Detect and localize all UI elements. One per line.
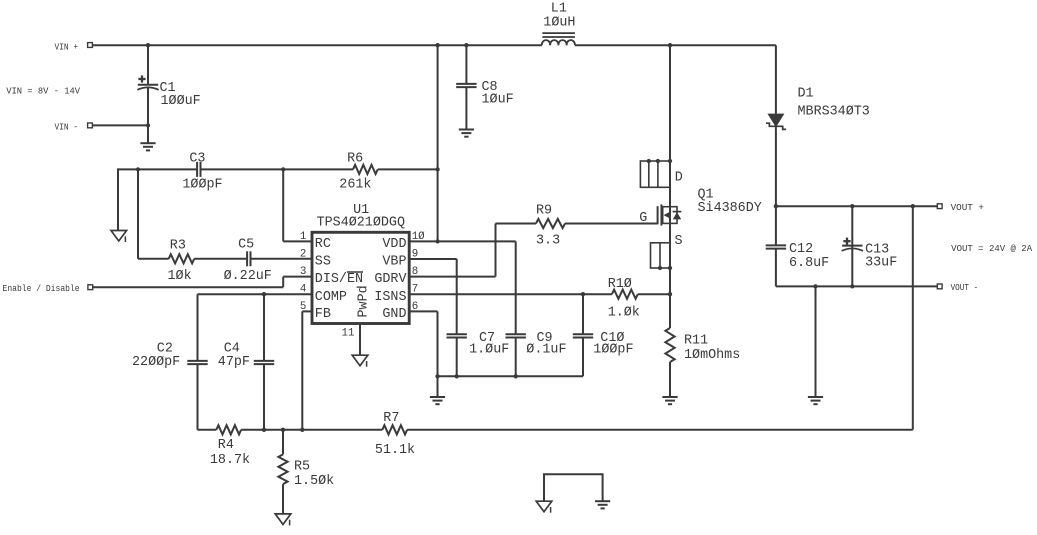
wire R9 riser: [495, 224, 497, 277]
label R9 ref: [536, 204, 552, 219]
junction Q1 drain top: [668, 43, 672, 47]
label C5 value: [224, 269, 272, 284]
ground below pin6: [430, 397, 445, 404]
wire FB drop: [301, 311, 303, 429]
wire C1 bottom lead: [147, 88, 149, 144]
resistor R7: [382, 425, 407, 434]
label U1 ref: [353, 203, 369, 218]
junction C4 bottom: [262, 428, 266, 432]
capacitor C4: [254, 361, 274, 364]
label Q1 G: [639, 211, 647, 226]
svg-text:VOUT +: VOUT +: [951, 203, 984, 213]
ground below R11: [662, 397, 677, 404]
wire C1 top lead: [147, 45, 149, 85]
svg-text:6.8uF: 6.8uF: [789, 256, 829, 271]
junction feedback tap: [911, 204, 915, 208]
label D1 value: [798, 104, 870, 119]
wire C9 drop: [515, 241, 517, 334]
junction C13 top: [850, 204, 854, 208]
label VOUT spec: [951, 244, 1033, 254]
label Enable/Disable: [3, 284, 80, 294]
wire D1 bottom lead: [775, 126, 777, 206]
svg-text:1: 1: [300, 231, 306, 243]
terminal VIN+: [88, 43, 93, 48]
label C1 ref: [160, 81, 176, 96]
terminal VOUT-: [937, 284, 942, 289]
label pin 6 number: [412, 301, 418, 313]
label R5 value: [294, 474, 334, 489]
capacitor C7: [447, 334, 467, 337]
wire Q1 drain line: [669, 45, 671, 207]
svg-text:11: 11: [342, 327, 355, 339]
wire VDD vertical: [437, 44, 439, 241]
svg-text:FB: FB: [315, 307, 331, 322]
label R3 ref: [170, 239, 186, 254]
svg-text:VBP: VBP: [382, 255, 406, 270]
label Q1 D: [675, 170, 683, 185]
label R11 value: [684, 348, 740, 363]
junction C7 bottom: [455, 374, 459, 378]
capacitor C2: [187, 361, 207, 364]
wire VIN+ rail right: [575, 44, 776, 46]
label L1 value: [543, 16, 575, 31]
svg-text:VIN -: VIN -: [55, 123, 79, 133]
label R6 ref: [347, 151, 363, 166]
svg-text:51.1k: 51.1k: [375, 443, 415, 458]
label pin VDD: [382, 237, 406, 252]
capacitor C12: [766, 245, 786, 248]
junction gnd rail: [435, 374, 439, 378]
wire pin1 stub: [283, 240, 312, 242]
svg-text:COMP: COMP: [315, 290, 347, 305]
label PwPd: [357, 285, 372, 317]
svg-text:R4: R4: [218, 438, 234, 453]
svg-text:1Øk: 1Øk: [168, 269, 192, 284]
svg-text:R1Ø: R1Ø: [608, 277, 632, 292]
svg-text:R11: R11: [684, 333, 708, 348]
Q1 drain pin box: [640, 159, 672, 187]
wire C7 drop: [456, 259, 458, 334]
junction VIN- at C1: [146, 123, 150, 127]
wire pin6 drop: [437, 311, 439, 397]
label pin 9 number: [412, 248, 418, 260]
wire VOUT- rail: [776, 285, 937, 287]
svg-text:1.5Øk: 1.5Øk: [294, 474, 334, 489]
label pin GND: [382, 307, 406, 322]
terminal Enable: [88, 285, 93, 290]
label pin 2 number: [300, 248, 306, 260]
wire C13 bottom lead: [851, 249, 853, 287]
resistor R9: [536, 219, 565, 228]
label R4 ref: [218, 438, 234, 453]
svg-text:S: S: [675, 234, 683, 249]
wire RC rail seg1: [118, 168, 197, 170]
junction D1-C12: [774, 204, 778, 208]
ground below VOUT rail: [808, 397, 823, 404]
svg-text:R5: R5: [294, 460, 310, 475]
wire R3 left lead: [138, 258, 169, 260]
label R10 value: [608, 306, 640, 321]
capacitor C3: [197, 162, 200, 177]
svg-text:SS: SS: [315, 255, 331, 270]
label D1 ref: [798, 86, 814, 101]
IC U1 body: [312, 232, 409, 323]
svg-text:VOUT = 24V @ 2A: VOUT = 24V @ 2A: [951, 244, 1033, 254]
label C12 value: [789, 256, 829, 271]
wire C8 top lead: [465, 45, 467, 84]
svg-text:GDRV: GDRV: [374, 272, 406, 287]
junction R6-VDD node: [435, 167, 439, 171]
wire R11 bottom lead: [669, 362, 671, 397]
wire VIN+ rail left: [92, 44, 542, 46]
svg-text:R3: R3: [170, 239, 186, 254]
terminal VOUT+: [937, 204, 942, 209]
label pin 7 number: [412, 284, 418, 296]
svg-text:1ØØpF: 1ØØpF: [593, 342, 633, 357]
label pin RC: [315, 237, 331, 252]
label VIN input range: [6, 87, 81, 97]
wire fb rail seg2: [407, 429, 913, 431]
wire VIN- lead: [92, 124, 148, 126]
wire enable riser: [282, 277, 284, 288]
label C10 ref: [600, 331, 624, 346]
label C9 value: [526, 342, 566, 357]
label pin ISNS: [374, 290, 406, 305]
label C2 ref: [157, 341, 173, 356]
svg-text:3.3: 3.3: [536, 233, 560, 248]
svg-text:1ØØpF: 1ØØpF: [182, 178, 222, 193]
label C1 value: [161, 94, 201, 109]
label pin 11 number: [342, 327, 355, 339]
wire R3-C5: [194, 258, 247, 260]
svg-text:TPS4Ø21ØDGQ: TPS4Ø21ØDGQ: [317, 216, 405, 231]
svg-text:Ø.22uF: Ø.22uF: [224, 269, 272, 284]
label VOUT-: [951, 283, 979, 293]
wire C4 drop: [263, 294, 265, 361]
wire R5 bottom lead: [282, 484, 284, 514]
wire enable run: [93, 286, 284, 288]
label R10 ref: [608, 277, 632, 292]
svg-text:18.7k: 18.7k: [210, 453, 250, 468]
svg-text:DIS/EN: DIS/EN: [315, 272, 363, 287]
label VIN-: [55, 123, 79, 133]
wire C12 top lead: [775, 206, 777, 245]
svg-text:Enable / Disable: Enable / Disable: [3, 284, 80, 294]
label C13 ref: [865, 242, 889, 257]
label pin 3 number: [300, 266, 306, 278]
label pin 1 number: [300, 231, 306, 243]
wire C8 bottom lead: [465, 87, 467, 129]
wire pin5 stub: [302, 310, 312, 312]
wire pin10 stub: [409, 240, 516, 242]
svg-text:R7: R7: [383, 411, 399, 426]
svg-text:GND: GND: [382, 307, 406, 322]
svg-text:33uF: 33uF: [865, 256, 897, 271]
svg-text:1.ØuF: 1.ØuF: [469, 342, 509, 357]
svg-text:VIN = 8V - 14V: VIN = 8V - 14V: [6, 87, 81, 97]
wire gnd stub left: [117, 168, 119, 230]
junction VDD branch top: [435, 43, 439, 47]
capacitor C9: [506, 334, 526, 337]
svg-text:1ØØuF: 1ØØuF: [161, 94, 201, 109]
ground earth tie: [595, 501, 610, 508]
svg-text:C5: C5: [238, 238, 254, 253]
ground triangle left: [111, 231, 127, 243]
label C8 value: [482, 92, 514, 107]
wire pin1 riser: [282, 169, 284, 241]
wire pin3 stub: [283, 276, 312, 278]
label pin 10 number: [412, 231, 425, 243]
wire D1 top lead: [775, 45, 777, 114]
junction C13 bottom: [850, 284, 854, 288]
resistor R10: [612, 290, 638, 299]
ground triangle pin11: [352, 355, 368, 367]
resistor R6: [353, 165, 378, 174]
svg-text:L1: L1: [551, 1, 567, 16]
label Q1 ref: [698, 187, 714, 202]
junction FB node: [300, 428, 304, 432]
label C10 value: [593, 342, 633, 357]
label C3 value: [182, 178, 222, 193]
label C9 ref: [537, 331, 553, 346]
label pin VBP: [382, 255, 406, 270]
wire C7 bottom: [456, 338, 458, 377]
capacitor C10: [573, 334, 593, 337]
svg-text:PwPd: PwPd: [357, 285, 372, 317]
label C5 ref: [238, 238, 254, 253]
svg-text:D: D: [675, 170, 683, 185]
label R9 value: [536, 233, 560, 248]
svg-text:1ØuH: 1ØuH: [543, 16, 575, 31]
label L1 ref: [551, 1, 567, 16]
label pin DIS/EN: [315, 272, 363, 287]
label R7 ref: [383, 411, 399, 426]
inductor L1: [542, 33, 575, 45]
diode D1: [766, 114, 786, 129]
wire R10 right lead: [638, 293, 670, 295]
wire pin11 stub: [359, 324, 361, 356]
label C13 value: [865, 256, 897, 271]
label C4 ref: [224, 341, 240, 356]
wire C12 bottom lead: [775, 249, 777, 287]
svg-text:261k: 261k: [339, 178, 371, 193]
junction RC-R3 node: [136, 167, 140, 171]
svg-text:47pF: 47pF: [218, 355, 250, 370]
svg-text:22ØØpF: 22ØØpF: [132, 355, 180, 370]
wire C9 bottom: [515, 338, 517, 377]
label C8 ref: [482, 80, 498, 95]
resistor R5: [278, 454, 287, 484]
capacitor C8: [456, 84, 476, 87]
svg-text:VIN +: VIN +: [55, 42, 79, 52]
wire pin7 stub: [409, 293, 612, 295]
capacitor C1: [137, 75, 158, 89]
svg-text:5: 5: [300, 301, 306, 313]
junction C10 top: [581, 292, 585, 296]
label R11 ref: [684, 333, 708, 348]
svg-text:3: 3: [300, 266, 306, 278]
label VOUT+: [951, 203, 984, 213]
wire pin8 stub: [409, 276, 495, 278]
wire RC rail seg3: [378, 168, 438, 170]
svg-text:D1: D1: [798, 86, 814, 101]
wire Q1 source line: [669, 223, 671, 328]
junction gnd tap: [813, 284, 817, 288]
label C12 ref: [789, 242, 813, 257]
label C3 ref: [189, 151, 205, 166]
svg-text:Ø.1uF: Ø.1uF: [526, 342, 566, 357]
svg-text:VDD: VDD: [382, 237, 406, 252]
wire R3 drop: [137, 169, 139, 258]
svg-text:1ØmOhms: 1ØmOhms: [684, 348, 740, 363]
svg-text:Si4386DY: Si4386DY: [698, 201, 762, 216]
capacitor C5: [247, 251, 250, 266]
label Q1 part: [698, 201, 762, 216]
wire pin4 stub: [198, 293, 313, 295]
svg-text:ISNS: ISNS: [374, 290, 406, 305]
wire C12-C13 gnd drop: [815, 286, 817, 397]
label R5 ref: [294, 460, 310, 475]
wire C2 bottom: [197, 364, 199, 430]
label pin COMP: [315, 290, 347, 305]
svg-text:MBRS34ØT3: MBRS34ØT3: [798, 104, 870, 119]
ground below C1: [140, 143, 155, 150]
junction RC pin1 node: [281, 167, 285, 171]
wire cap gnd rail: [438, 375, 584, 377]
label C2 value: [132, 355, 180, 370]
wire pin9 stub: [409, 258, 457, 260]
svg-text:RC: RC: [315, 237, 331, 252]
svg-text:2: 2: [300, 248, 306, 260]
capacitor C13: [842, 238, 863, 251]
label pin GDRV: [374, 272, 406, 287]
wire R5 top lead: [282, 430, 284, 455]
Q1 source pin box: [651, 243, 673, 270]
svg-text:1ØuF: 1ØuF: [482, 92, 514, 107]
wire C13 top lead: [851, 206, 853, 248]
svg-text:1.Øk: 1.Øk: [608, 306, 640, 321]
resistor R4: [216, 425, 241, 434]
label C7 ref: [479, 331, 495, 346]
label U1 part: [317, 216, 405, 231]
resistor R11: [665, 328, 674, 362]
svg-text:G: G: [639, 211, 647, 226]
ground triangle R5: [275, 514, 291, 526]
junction C1 top: [146, 43, 150, 47]
ground below C8: [459, 130, 474, 137]
label VIN+: [55, 42, 79, 52]
junction COMP-C4: [262, 292, 266, 296]
wire feedback riser: [912, 206, 914, 430]
transistor Q1: [658, 204, 682, 225]
junction R10-source: [668, 292, 672, 296]
label Q1 S: [675, 234, 683, 249]
svg-text:C12: C12: [789, 242, 813, 257]
junction C9 bottom: [514, 374, 518, 378]
wire C4 bottom: [263, 364, 265, 430]
resistor R3: [169, 254, 195, 263]
label pin 5 number: [300, 301, 306, 313]
junction C8 top: [464, 43, 468, 47]
wire C2 drop: [197, 294, 199, 361]
wire C2-R4 lead: [198, 429, 217, 431]
wire VOUT+ rail: [776, 205, 937, 207]
wire R9 left lead: [496, 223, 537, 225]
wire RC rail seg2: [201, 168, 354, 170]
svg-text:R9: R9: [536, 204, 552, 219]
label pin 8 number: [412, 266, 418, 278]
wire pin6 stub: [409, 310, 437, 312]
label pin 4 number: [300, 284, 306, 296]
svg-text:R6: R6: [347, 151, 363, 166]
label R6 value: [339, 178, 371, 193]
label C4 value: [218, 355, 250, 370]
ground triangle tie: [536, 501, 552, 513]
label R4 value: [210, 453, 250, 468]
label R3 value: [168, 269, 192, 284]
svg-text:4: 4: [300, 284, 306, 296]
svg-text:C3: C3: [189, 151, 205, 166]
junction VDD pin: [435, 239, 439, 243]
terminal VIN-: [88, 123, 93, 128]
wire C10 drop: [582, 294, 584, 334]
wire C5-pin2: [251, 258, 313, 260]
label pin SS: [315, 255, 331, 270]
label C7 value: [469, 342, 509, 357]
wire R9-gate: [565, 223, 658, 225]
label R7 value: [375, 443, 415, 458]
wire C10 bottom: [582, 338, 584, 377]
svg-text:VOUT -: VOUT -: [951, 283, 979, 293]
wire fb rail seg1: [241, 429, 382, 431]
label pin FB: [315, 307, 331, 322]
junction R5 top: [281, 428, 285, 432]
wire ground tie: [544, 474, 603, 501]
